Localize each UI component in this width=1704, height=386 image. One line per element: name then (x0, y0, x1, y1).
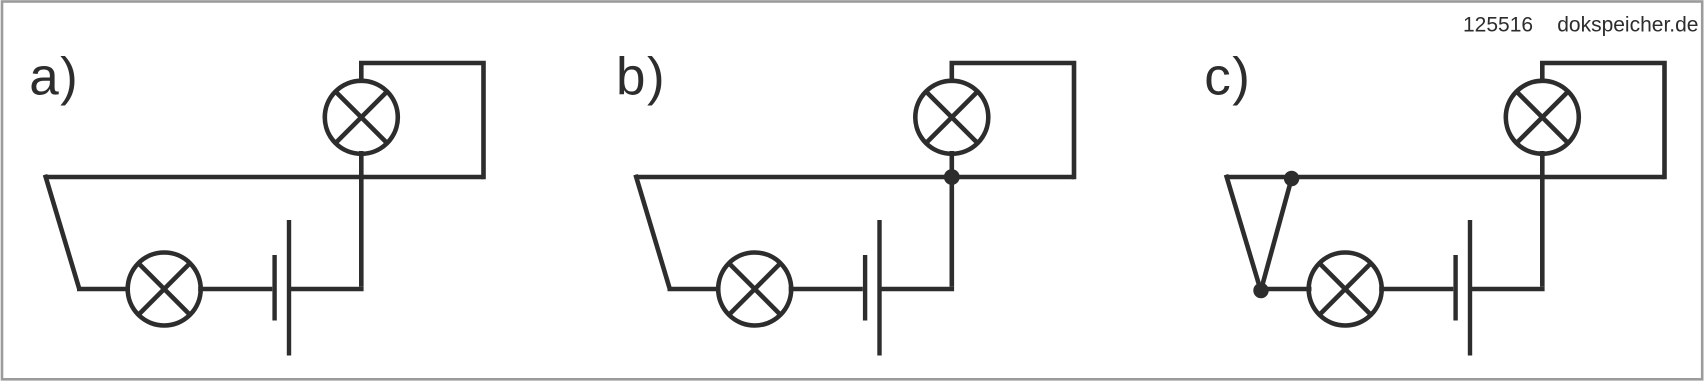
lamp L1 cross (336, 92, 387, 143)
wire left slant c (1226, 175, 1260, 289)
wire lamp L2 to battery a (198, 287, 272, 292)
junction dot circuit b (bus meets lamp branch) (944, 169, 960, 185)
battery B2 short plate (negative) (863, 255, 867, 321)
wire top loop a: lamp top to upper-right rectangle down to node row (361, 63, 483, 179)
wire left slant b (636, 175, 670, 289)
svg-text:c): c) (1204, 48, 1251, 107)
battery B1 long plate (positive) (287, 220, 291, 356)
wire battery to lamp-bottom vertical a (289, 287, 364, 292)
lamp L6 cross (1320, 263, 1371, 314)
battery B2 long plate (positive) (877, 220, 881, 356)
wire lamp L4 to battery b (789, 287, 863, 292)
svg-text:b): b) (616, 48, 666, 107)
svg-text:a): a) (29, 48, 79, 107)
junction dot circuit c upper (on bus) (1284, 171, 1299, 186)
wire lamp L6 to battery c (1379, 287, 1453, 292)
svg-text:dokspeicher.de: dokspeicher.de (1557, 14, 1698, 37)
lamp L6 (bottom, circuit c) (1309, 253, 1382, 326)
wire battery to lamp-bottom vertical b (880, 287, 955, 292)
lamp L2 cross (139, 263, 190, 314)
svg-text:125516: 125516 (1463, 14, 1533, 37)
wire left slant a (45, 175, 79, 289)
wire bottom-left b (668, 287, 721, 292)
battery B3 short plate (negative) (1453, 255, 1457, 321)
lamp L3 cross (926, 92, 977, 143)
wire bottom-left a (77, 287, 130, 292)
junction dot circuit c lower (bottom node) (1253, 283, 1268, 298)
wire vertical under lamp L1 (crosses bus, no junction) (359, 151, 364, 287)
wire horizontal bus b (636, 175, 1075, 180)
wire slant from bus node to bottom node c (1261, 179, 1292, 291)
wire bottom-left c (1259, 287, 1312, 292)
wire horizontal bus c (1226, 175, 1665, 180)
battery B3 long plate (positive) (1468, 220, 1472, 356)
lamp L5 (top, circuit c) (1506, 81, 1579, 154)
wire vertical under lamp L5 (crosses bus, no junction) (1540, 151, 1545, 287)
lamp L1 (top, circuit a) (325, 81, 398, 154)
wire vertical under lamp L3 (connected to bus) (949, 151, 954, 287)
lamp L5 cross (1517, 92, 1568, 143)
wire horizontal bus a (45, 175, 484, 180)
lamp L3 (top, circuit b) (915, 81, 988, 154)
lamp L4 (bottom, circuit b) (718, 253, 791, 326)
wire top loop b (952, 63, 1074, 179)
battery B1 short plate (negative) (272, 255, 276, 321)
lamp L4 cross (729, 263, 780, 314)
wire top loop c (1542, 63, 1664, 179)
lamp L2 (bottom, circuit a) (128, 253, 201, 326)
wire battery to lamp-bottom vertical c (1470, 287, 1545, 292)
